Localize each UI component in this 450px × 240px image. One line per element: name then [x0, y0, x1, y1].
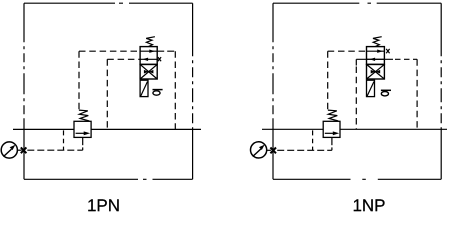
pilot line vent (to relief spring) vertical — [78, 51, 80, 109]
wire P main line left segment — [13, 128, 74, 130]
solenoid valve V1 position 1 box — [140, 47, 157, 65]
pilot line vent horizontal to valve V1 upper port — [79, 50, 140, 52]
valve V1 lower port flow path arrow — [140, 58, 158, 60]
enclosure (manifold boundary) 1NP top edge — [273, 2, 441, 4]
pilot line from P down to gauge line (branch) — [63, 130, 65, 143]
label b (rotated) — [153, 89, 163, 91]
pilot line from P down to gauge line (branch) — [312, 130, 314, 143]
svg-text:1NP: 1NP — [352, 196, 385, 214]
valve V2 lower port flow path arrow — [367, 58, 385, 60]
relief valve RV1 spring — [79, 110, 89, 121]
plugged port x mark — [158, 57, 161, 61]
enclosure 1NP bottom edge — [273, 178, 441, 180]
relief valve RV1 drain stub — [82, 137, 84, 145]
enclosure 1NP right edge — [440, 3, 442, 179]
wire P main line right segment — [91, 128, 201, 130]
wire gauge connector — [17, 149, 21, 151]
test point X junction — [270, 148, 276, 154]
pilot line valve V1 lower port horizontal — [107, 58, 140, 60]
relief valve RV2 body — [323, 121, 340, 137]
valve V1 spring — [146, 37, 155, 47]
relief valve RV1 body — [74, 121, 91, 137]
label b (rotated) — [381, 89, 391, 91]
pilot line right vertical down to P — [416, 59, 418, 129]
pressure gauge G1 — [1, 142, 17, 158]
svg-text:1PN: 1PN — [87, 196, 120, 214]
enclosure 1PN left edge — [23, 3, 25, 179]
relief valve RV2 flow arrow — [325, 132, 333, 134]
pilot line vent horizontal to valve V2 upper port — [328, 50, 367, 52]
pilot line right vertical down to P — [174, 51, 176, 129]
enclosure 1NP left edge — [272, 3, 274, 179]
pilot line lower port to right corner — [395, 58, 417, 60]
pilot line vent (to relief spring) vertical — [327, 51, 329, 109]
valve V2 upper port flow path arrow — [367, 50, 385, 52]
valve V2 solenoid coil b — [367, 80, 375, 96]
wire valve V2 lower port to left corner — [356, 58, 393, 60]
enclosure (manifold boundary) 1PN top edge — [24, 2, 193, 4]
pilot line gauge sense horizontal — [277, 149, 332, 151]
wire gauge connector — [267, 149, 271, 151]
valve V1 crossed position diagonals — [140, 64, 157, 79]
wire P main line left segment — [262, 128, 323, 130]
valve V1 solenoid coil b — [140, 80, 148, 96]
solenoid valve V2 position 1 box — [367, 47, 385, 65]
enclosure 1PN right edge — [192, 3, 194, 179]
pressure gauge G2 — [251, 142, 267, 158]
valve V2 position 2 box (crossed) — [367, 64, 385, 79]
pilot line lower port vertical down to P — [106, 59, 108, 129]
wire P main line right segment — [340, 128, 447, 130]
test point X junction — [21, 147, 27, 153]
valve V2 crossed position diagonals — [367, 64, 385, 79]
pilot line gauge sense horizontal — [27, 149, 82, 151]
pilot line lower-left vertical down to P — [355, 67, 357, 130]
pilot line from valve V1 upper port to right corner — [157, 50, 175, 52]
valve V1 position 2 box (crossed) — [140, 64, 157, 79]
valve V2 spring — [373, 37, 382, 47]
relief valve RV2 spring — [328, 110, 338, 121]
relief valve RV1 flow arrow — [76, 132, 84, 134]
plugged port x mark — [386, 49, 389, 53]
valve V1 upper port flow path arrow — [140, 50, 157, 52]
relief valve RV2 drain stub — [331, 137, 333, 145]
enclosure 1PN bottom edge — [24, 178, 193, 180]
